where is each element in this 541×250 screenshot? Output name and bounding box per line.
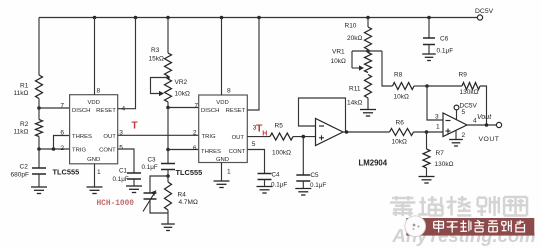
wire U1 CONT to C1 xyxy=(118,149,134,173)
watermark AnyTesting.com xyxy=(392,225,536,246)
capacitor C5 xyxy=(296,175,310,181)
svg-text:RESET: RESET xyxy=(226,108,246,114)
svg-text:TLC555: TLC555 xyxy=(176,168,203,177)
IC U1 TLC555 body xyxy=(70,95,118,164)
svg-text:4: 4 xyxy=(122,106,126,113)
label pin4 Vout xyxy=(473,114,492,125)
svg-text:CONT: CONT xyxy=(99,148,116,154)
node rail junction reset U2 xyxy=(257,16,261,20)
svg-text:20kΩ: 20kΩ xyxy=(347,35,362,42)
resistor R9 xyxy=(462,83,480,90)
terminal VOUT xyxy=(496,122,501,127)
potentiometer VR2 xyxy=(151,78,172,103)
label TLC555 U1 xyxy=(53,168,80,177)
node VR2 top xyxy=(166,76,170,80)
wire R5 to opamp xyxy=(293,136,316,138)
svg-text:1: 1 xyxy=(227,169,231,176)
svg-text:R9: R9 xyxy=(459,72,468,79)
label U2 RESET xyxy=(226,108,246,114)
wire pin2 to ground xyxy=(455,130,457,139)
wire C3 to branch node xyxy=(167,170,169,177)
node feedback junction xyxy=(345,130,349,134)
svg-text:0.1μF: 0.1μF xyxy=(113,176,129,183)
wire rail to R3 xyxy=(167,18,169,54)
resistor R1 xyxy=(36,75,43,98)
label DC5V opamp xyxy=(460,103,478,110)
svg-text:5: 5 xyxy=(252,141,256,148)
svg-text:C1: C1 xyxy=(119,168,128,175)
label U2 TRIG xyxy=(202,134,216,140)
pin 8 wire U2 xyxy=(221,18,223,96)
svg-text:10kΩ: 10kΩ xyxy=(392,139,407,146)
pin 2 label U1 xyxy=(60,145,64,152)
svg-text:6: 6 xyxy=(60,130,64,137)
label R10 xyxy=(345,23,363,43)
svg-text:2: 2 xyxy=(462,132,466,139)
pin 1 wire U1 xyxy=(94,164,96,187)
svg-text:VDD: VDD xyxy=(87,100,99,106)
svg-text:10kΩ: 10kΩ xyxy=(175,91,190,98)
wire node to DISCH U1 xyxy=(39,107,70,109)
label U2 GND xyxy=(216,157,229,163)
pin 8 label U2 xyxy=(227,88,231,95)
ground U2 pin1 xyxy=(214,181,230,188)
potentiometer VR1 xyxy=(352,51,372,73)
label U1 RESET xyxy=(96,108,116,114)
svg-text:C5: C5 xyxy=(311,172,320,179)
wire rail to C6 xyxy=(428,18,430,39)
svg-text:11kΩ: 11kΩ xyxy=(14,90,29,97)
svg-text:R11: R11 xyxy=(349,86,361,93)
svg-text:TRIG: TRIG xyxy=(202,134,216,140)
pin 1 label U2 xyxy=(227,169,231,176)
wire VR1 box top xyxy=(352,50,382,52)
svg-text:0.1μF: 0.1μF xyxy=(271,182,287,189)
svg-text:4.7MΩ: 4.7MΩ xyxy=(179,199,198,206)
pin 4 wire U2 xyxy=(247,18,259,111)
terminal DC5V top right xyxy=(477,15,482,20)
wire rail to R10 xyxy=(367,18,369,28)
pin 3 label U2 xyxy=(253,125,257,132)
pin 3 label U3B xyxy=(435,114,439,121)
wire U2 CONT to C4 xyxy=(247,150,264,174)
label U1 CONT xyxy=(99,148,116,154)
pin 4 label U1 xyxy=(122,106,126,113)
ground C4 xyxy=(257,187,273,194)
op-amp U3B LM2904 xyxy=(443,113,467,137)
label R9 xyxy=(459,72,479,97)
wire R3 to VR2 xyxy=(167,76,169,79)
terminal DC5V opamp supply xyxy=(454,105,459,110)
node R1 R2 disch junction xyxy=(37,106,41,110)
svg-text:VOUT: VOUT xyxy=(479,136,500,143)
node R8 R9 junction xyxy=(425,84,429,88)
svg-text:OUT: OUT xyxy=(103,134,116,140)
svg-text:VR1: VR1 xyxy=(332,49,345,56)
svg-text:DC5V: DC5V xyxy=(460,103,478,110)
capacitor C1 xyxy=(127,173,141,179)
pin 5 label U1 xyxy=(119,145,123,152)
label C5 xyxy=(310,172,326,189)
svg-text:R6: R6 xyxy=(396,120,405,127)
label node TH red xyxy=(256,123,267,138)
node THRES U2 junction xyxy=(166,148,170,152)
wire R6 to opamp2 xyxy=(414,131,444,133)
watermark red banner xyxy=(406,218,534,236)
wire node to R2 xyxy=(38,108,40,120)
ground U3B pin2 xyxy=(449,140,463,147)
svg-text:0.1μF: 0.1μF xyxy=(437,48,454,55)
svg-text:7: 7 xyxy=(60,103,64,110)
svg-text:T: T xyxy=(132,121,138,132)
svg-text:8: 8 xyxy=(227,88,231,95)
pin 6 label U2 xyxy=(193,145,197,152)
wire node to R9 xyxy=(427,85,462,87)
node VR1 top xyxy=(366,49,370,53)
pin 1 label U1 xyxy=(97,169,101,176)
label R7 xyxy=(435,150,454,168)
wire U3B output xyxy=(467,124,496,126)
svg-text:R8: R8 xyxy=(394,72,403,79)
svg-text:100kΩ: 100kΩ xyxy=(272,150,291,157)
svg-text:2: 2 xyxy=(60,145,64,152)
wire feedback loop U3A xyxy=(299,98,346,132)
capacitor C6 xyxy=(423,38,435,45)
wire VR1 to R8 xyxy=(382,51,393,86)
wire C5 to ground xyxy=(302,181,304,189)
wire R8 to node xyxy=(414,85,427,87)
label U2 VDD xyxy=(216,100,228,106)
label C4 xyxy=(271,172,287,189)
label R11 xyxy=(347,86,362,107)
pin 2 label U2 xyxy=(193,130,197,137)
wire U2 OUT to R5 xyxy=(247,136,270,138)
humidity sensor HCH-1000 capacitor xyxy=(143,191,157,212)
node trig junction xyxy=(37,147,41,151)
IC U2 TLC555 body xyxy=(199,95,248,163)
ground R7 xyxy=(419,177,435,184)
label TLC555 U2 xyxy=(176,168,203,177)
svg-text:1: 1 xyxy=(436,124,440,131)
pin 8 wire U1 xyxy=(94,18,96,95)
node rail junction R10 xyxy=(366,16,370,20)
svg-text:6: 6 xyxy=(193,145,197,152)
ground C1 xyxy=(126,186,142,193)
pin 1 wire U2 xyxy=(221,163,223,182)
wire trig node to TRIG U1 xyxy=(39,148,70,150)
label C1 xyxy=(113,168,129,184)
resistor R6 xyxy=(390,129,414,136)
svg-text:Vout: Vout xyxy=(477,114,492,121)
label U1 VDD xyxy=(87,100,99,106)
label R4 xyxy=(178,192,198,207)
node output junction xyxy=(485,123,489,127)
svg-text:R10: R10 xyxy=(345,23,357,30)
op-amp U3A LM2904 buffer xyxy=(316,119,344,146)
wire R1 to node xyxy=(38,99,40,109)
svg-text:1: 1 xyxy=(97,169,101,176)
wire branch to R4 xyxy=(167,176,169,182)
node rail junction pin8 U2 xyxy=(220,16,224,20)
wire disch to thres vertical xyxy=(167,108,169,150)
svg-text:0.1μF: 0.1μF xyxy=(142,164,158,171)
node DISCH U2 junction xyxy=(166,106,170,110)
label U1 OUT xyxy=(103,134,116,140)
wire U3A output xyxy=(343,131,390,133)
svg-text:C3: C3 xyxy=(148,157,157,164)
label U2 THRES xyxy=(201,149,221,155)
node T wire U1 OUT to U2 TRIG xyxy=(118,134,199,136)
label U2 OUT xyxy=(232,135,245,141)
svg-text:680pF: 680pF xyxy=(11,172,29,179)
svg-text:5: 5 xyxy=(119,145,123,152)
capacitor C2 xyxy=(32,168,46,174)
node sensor branch xyxy=(166,174,170,178)
svg-text:GND: GND xyxy=(87,157,100,163)
wire node to C5 xyxy=(302,137,304,175)
label node T red xyxy=(132,121,138,132)
svg-text:C2: C2 xyxy=(20,164,29,171)
pin 8 label U1 xyxy=(97,88,101,95)
svg-text:C4: C4 xyxy=(272,172,281,179)
watermark white CJK text xyxy=(434,220,525,232)
wire branch to sensor xyxy=(150,176,168,193)
svg-text:THRES: THRES xyxy=(201,149,221,155)
ground R11 xyxy=(360,110,376,117)
svg-text:VDD: VDD xyxy=(216,100,228,106)
wire node to R7 xyxy=(426,132,428,149)
resistor R10 xyxy=(365,27,372,50)
label U2 CONT xyxy=(229,149,246,155)
wire R11 to ground xyxy=(367,98,369,110)
node R7 junction xyxy=(425,130,429,134)
label R2 xyxy=(14,121,29,136)
pin 5 label U2 xyxy=(252,141,256,148)
resistor R2 xyxy=(36,120,43,137)
wire supply to pin5 xyxy=(456,110,458,120)
capacitor C3 xyxy=(161,164,175,170)
wire to DISCH U2 xyxy=(168,107,199,109)
ground C5 xyxy=(295,189,311,196)
svg-text:DC5V: DC5V xyxy=(475,8,494,15)
label VR2 xyxy=(175,79,190,98)
svg-text:130kΩ: 130kΩ xyxy=(435,161,454,168)
svg-text:R2: R2 xyxy=(20,121,29,128)
resistor R4 xyxy=(165,182,172,210)
label U1 GND xyxy=(87,157,100,163)
svg-text:TLC555: TLC555 xyxy=(53,168,80,177)
svg-text:130kΩ: 130kΩ xyxy=(460,89,479,96)
label HCH-1000 red xyxy=(97,200,135,208)
svg-text:TRIG: TRIG xyxy=(72,148,86,154)
node C5 junction xyxy=(302,135,306,139)
ground C6 xyxy=(422,54,436,61)
svg-text:DISCH: DISCH xyxy=(201,108,219,114)
label VR1 xyxy=(331,49,346,66)
watermark gray CJK text xyxy=(390,196,527,216)
svg-text:CONT: CONT xyxy=(229,149,246,155)
capacitor C4 xyxy=(258,174,272,180)
wire R9 to output xyxy=(480,86,487,125)
svg-text:R5: R5 xyxy=(275,123,284,130)
wire VR2 to disch node xyxy=(167,102,169,108)
node rail junction reset U1 xyxy=(134,16,138,20)
wire node to pin3 xyxy=(427,86,443,120)
wire thres node to C3 xyxy=(167,150,169,164)
pin 7 label U1 xyxy=(60,103,64,110)
label C6 xyxy=(437,36,454,55)
svg-text:0.1μF: 0.1μF xyxy=(310,182,326,189)
svg-text:C6: C6 xyxy=(440,36,449,43)
wire R7 to ground xyxy=(426,168,428,177)
wire C4 to ground xyxy=(264,180,266,187)
wire C2 to ground xyxy=(38,174,40,187)
svg-text:2: 2 xyxy=(193,130,197,137)
pin 2 label U3B xyxy=(462,132,466,139)
watermark circle logo xyxy=(405,216,426,237)
label VOUT xyxy=(479,136,500,143)
label R6 xyxy=(392,120,407,146)
wire sensor bottom xyxy=(150,199,168,213)
svg-text:VR2: VR2 xyxy=(175,79,188,86)
resistor R8 xyxy=(393,83,415,90)
pin 5 label U3B xyxy=(462,109,466,116)
wire top power rail DC5V xyxy=(39,17,477,19)
label U1 THRES xyxy=(72,134,92,140)
pin 1 label U3B xyxy=(436,124,440,131)
label U2 DISCH xyxy=(201,108,219,114)
ground sensor R4 xyxy=(161,224,175,231)
wire C6 to ground xyxy=(428,45,430,55)
svg-text:RESET: RESET xyxy=(96,108,116,114)
resistor R11 xyxy=(365,75,372,98)
pin 7 label U2 xyxy=(194,103,198,110)
svg-text:R3: R3 xyxy=(151,47,160,54)
label U1 TRIG xyxy=(72,148,86,154)
svg-text:GND: GND xyxy=(216,157,229,163)
resistor R7 xyxy=(423,149,430,168)
label C3 xyxy=(142,157,158,172)
pin 3 label U1 xyxy=(119,130,123,137)
svg-text:5: 5 xyxy=(462,109,466,116)
svg-text:OUT: OUT xyxy=(232,135,245,141)
wire to THRES U2 xyxy=(168,149,199,151)
svg-text:DISCH: DISCH xyxy=(72,108,90,114)
label R5 xyxy=(272,123,291,157)
wire branch to THRES U1 xyxy=(54,136,70,150)
svg-text:HCH-1000: HCH-1000 xyxy=(97,200,135,208)
wire rail to R1 xyxy=(38,18,40,76)
pin 6 label U1 xyxy=(60,130,64,137)
svg-text:11kΩ: 11kΩ xyxy=(14,129,29,136)
svg-text:THRES: THRES xyxy=(72,134,92,140)
svg-text:3: 3 xyxy=(435,114,439,121)
svg-text:R1: R1 xyxy=(20,83,29,90)
svg-text:7: 7 xyxy=(194,103,198,110)
ground C2 xyxy=(31,187,47,194)
label U1 DISCH xyxy=(72,108,90,114)
ground U1 pin1 xyxy=(87,187,103,194)
label LM2904 xyxy=(359,159,388,168)
svg-text:14kΩ: 14kΩ xyxy=(347,100,362,107)
svg-text:R7: R7 xyxy=(436,150,445,157)
svg-text:8: 8 xyxy=(97,88,101,95)
svg-text:R4: R4 xyxy=(178,192,187,199)
wire R2 to trig node xyxy=(38,137,40,150)
svg-text:10kΩ: 10kΩ xyxy=(394,94,409,101)
node thres branch xyxy=(52,147,56,151)
label R8 xyxy=(394,72,409,101)
resistor R5 xyxy=(270,133,293,140)
wire node to C2 xyxy=(38,149,40,168)
label C2 xyxy=(11,164,29,179)
wire C1 to ground xyxy=(133,179,135,186)
wire R4 to ground xyxy=(167,210,169,224)
label R3 xyxy=(149,47,164,63)
node rail junction C6 xyxy=(427,16,431,20)
svg-text:10kΩ: 10kΩ xyxy=(331,58,346,65)
node rail junction pin8 U1 xyxy=(93,16,97,20)
resistor R3 xyxy=(165,53,172,76)
pin 4 wire U1 xyxy=(118,18,136,109)
svg-text:15kΩ: 15kΩ xyxy=(149,56,164,63)
label R1 xyxy=(14,83,29,98)
node rail junction R3 xyxy=(166,16,170,20)
svg-text:LM2904: LM2904 xyxy=(359,159,388,168)
label DC5V top xyxy=(475,8,494,15)
